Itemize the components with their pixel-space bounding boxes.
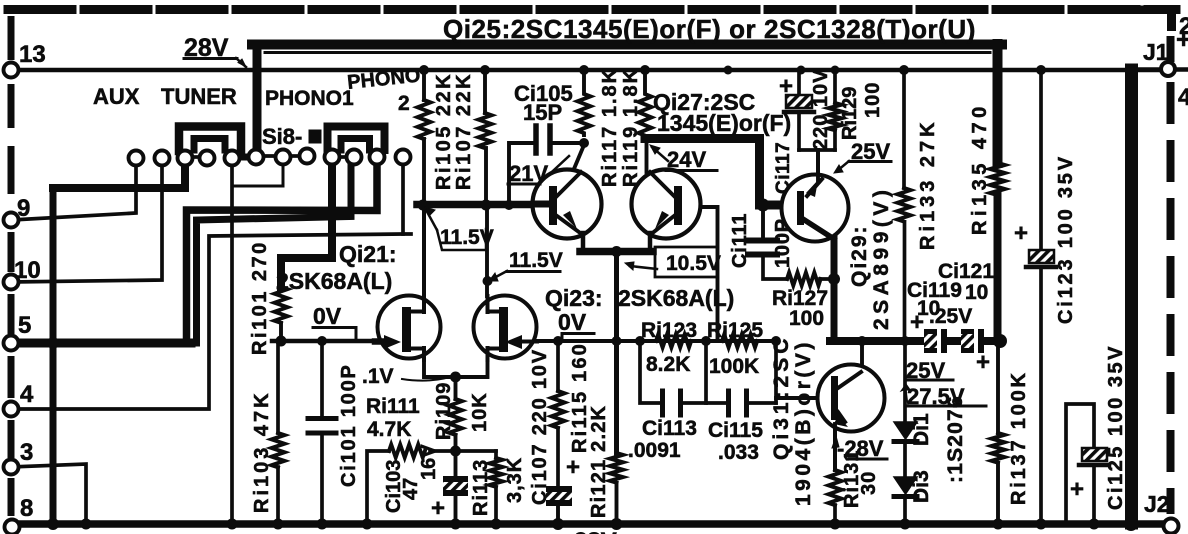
wire source node down to Ri109 — [454, 377, 458, 399]
wire Ri103 to ground — [276, 467, 280, 522]
svg-text:.033: .033 — [718, 441, 759, 464]
wire mid leg — [704, 341, 708, 403]
terminal 9 — [4, 213, 19, 228]
switch bracket PHONO1 outer — [328, 127, 385, 151]
callout 24V arrow — [652, 147, 668, 161]
junction (801,70) — [797, 66, 806, 75]
switch bracket TUNER outer — [179, 127, 241, 152]
junction (728,70) — [724, 66, 733, 75]
wire emitter tail down — [614, 251, 619, 453]
wire thick base node Q25 — [417, 201, 550, 209]
svg-text:Ci101 100P: Ci101 100P — [338, 363, 360, 487]
wire Ri115 column from rail — [556, 341, 560, 391]
border left dashed — [8, 16, 15, 516]
junction (455.5,377) — [450, 372, 461, 383]
contact TUNER-R — [200, 151, 215, 166]
capacitor Ci123 100 35V column — [1039, 70, 1043, 252]
wire Q27 base lead right — [682, 207, 718, 341]
resistor Ri123 8.2K horizontal — [656, 335, 691, 348]
resistor Ri121 2.2K — [610, 453, 623, 483]
svg-text:+: + — [1070, 476, 1084, 503]
wire AUX-L stub down from contact — [11, 165, 136, 220]
junction (53,524) — [47, 518, 59, 530]
wire 0V rail right segment — [537, 339, 776, 343]
wire thick TUNER contact to left bus — [53, 164, 185, 188]
diode Di1 1S2076 — [894, 422, 917, 439]
wire Ci103 to ground — [454, 496, 458, 522]
junction (1000,341) — [993, 334, 1007, 348]
svg-text:Ri109: Ri109 — [433, 382, 455, 440]
svg-text:Ri135 470: Ri135 470 — [969, 102, 991, 235]
capacitor Ci121 10 electrolytic — [961, 329, 974, 353]
switch bracket TUNER inner — [194, 139, 225, 151]
svg-text:Ci123 100 35V: Ci123 100 35V — [1055, 154, 1077, 324]
junction (455.5,524) — [450, 519, 461, 530]
wire Ri137 to ground — [996, 463, 1000, 523]
resistor Ri101 270 — [275, 287, 288, 323]
junction (834,279) — [828, 273, 840, 285]
contact PHONO1-R 28V feed — [249, 150, 264, 165]
callout .1V leader — [402, 377, 450, 381]
svg-text:Ri111: Ri111 — [366, 395, 420, 418]
connector J1 — [1161, 62, 1175, 76]
wire Ri121 to ground — [615, 483, 619, 522]
wire node to Ri111 — [430, 449, 456, 453]
junction (862,341) — [857, 336, 867, 346]
wire Q31 emitter column — [833, 426, 837, 470]
resistor Ri137 100K — [992, 433, 1005, 463]
junction (423,205) — [418, 200, 429, 211]
wire Ci115 leads — [708, 401, 726, 405]
diode Di3 1S2076 — [894, 477, 917, 494]
connector J2 — [1164, 519, 1179, 534]
capacitor Ci105 15P plates — [533, 126, 539, 153]
svg-text:30: 30 — [858, 471, 880, 495]
resistor Ri117 1.8K column — [578, 70, 591, 135]
junction (232,524) — [227, 519, 238, 530]
terminal 13 — [4, 63, 19, 78]
junction (1041,524) — [1036, 519, 1047, 530]
resistor Ri115 160 — [552, 391, 565, 428]
svg-text:Qi25:2SC1345(E)or(F) or 2SC132: Qi25:2SC1345(E)or(F) or 2SC1328(T)or(U) — [443, 14, 976, 44]
junction (278,524) — [273, 519, 284, 530]
junction (616.5,251.5) — [611, 246, 622, 257]
junction (616.5,341) — [612, 336, 622, 346]
resistor Ri129 100 column — [833, 70, 837, 103]
callout -28V underline arrow — [849, 458, 887, 461]
wire Ci105 right lead — [553, 141, 584, 145]
resistor Ri125 100K horizontal — [722, 335, 757, 348]
wire common emitter bus Q25 Q27 — [580, 248, 653, 256]
svg-text:3,3K: 3,3K — [504, 457, 526, 503]
wire link c283-c306 — [289, 154, 300, 158]
callout 25V top underline arrow — [849, 160, 891, 163]
svg-text:2SK68A(L): 2SK68A(L) — [276, 268, 392, 294]
svg-text:11.5V: 11.5V — [509, 249, 563, 272]
border top dashed — [8, 5, 1176, 14]
callout 21V underline leader — [508, 183, 540, 186]
resistor Ri133 27K column — [902, 70, 906, 188]
junction (322,524) — [317, 519, 328, 530]
junction (86,524) — [81, 519, 92, 530]
svg-text:+: + — [566, 454, 580, 481]
contact AUX-L — [129, 151, 144, 166]
wire thick bus left corner down to selector — [253, 44, 262, 155]
svg-text:Qi21:: Qi21: — [339, 241, 397, 267]
capacitor Ci101 100P plates — [308, 416, 336, 421]
transistor Q31 2SC1904 — [818, 365, 885, 471]
wire Ri109 to node — [454, 435, 458, 452]
junction (616.5,524) — [611, 518, 623, 530]
junction (706,341) — [701, 336, 711, 346]
junction (1131,524) — [1124, 517, 1138, 531]
svg-text:+: + — [1014, 220, 1028, 247]
contact c283 — [276, 150, 291, 165]
wire Ci103 column — [454, 451, 458, 477]
junction (905,341) — [900, 336, 910, 346]
transistor Q27 2SC1345 — [632, 141, 701, 252]
svg-text:3: 3 — [20, 439, 33, 466]
terminal 4 — [4, 402, 19, 417]
svg-text:+: + — [779, 73, 793, 100]
resistor Ri113 3.3K — [490, 458, 503, 487]
svg-text:2SK68A(L): 2SK68A(L) — [618, 285, 734, 311]
terminal 8 — [5, 520, 20, 534]
resistor Ri105 22K column — [422, 70, 426, 100]
wire Ci111 bottom lead — [763, 257, 787, 279]
resistor Ri109 10K — [449, 399, 462, 435]
svg-text:100P: 100P — [772, 218, 794, 268]
callout 0V first underline tick — [313, 328, 356, 340]
svg-text:Ri113: Ri113 — [470, 459, 492, 516]
junction (776,341) — [771, 336, 781, 346]
wire contact c403 down — [401, 164, 405, 234]
svg-text:10: 10 — [965, 281, 988, 304]
svg-text:Ci115: Ci115 — [708, 419, 763, 442]
svg-text:16V: 16V — [418, 444, 440, 480]
wire thick bus right corner down — [993, 44, 1003, 163]
wire thick right bus J1 down — [1125, 70, 1138, 523]
svg-text:10K: 10K — [469, 392, 491, 432]
svg-text:J2: J2 — [1144, 491, 1170, 517]
svg-text:.25V: .25V — [929, 305, 972, 328]
svg-text:100: 100 — [862, 82, 884, 118]
wire Q29 emitter thick down — [831, 236, 838, 341]
svg-text:J1: J1 — [1143, 39, 1169, 65]
svg-text:9: 9 — [17, 195, 30, 222]
wire AUX-R stub down to terminal 10 — [11, 165, 162, 282]
svg-text:Ri123: Ri123 — [641, 319, 697, 342]
svg-text:AUX: AUX — [93, 84, 140, 109]
callout 25V output underline — [906, 379, 953, 382]
wire 25V node join — [799, 148, 835, 152]
junction (53,343) — [47, 337, 59, 349]
svg-text:Ci125 100 35V: Ci125 100 35V — [1105, 344, 1127, 510]
capacitor Ci103 47 electrolytic — [443, 476, 468, 482]
wire Ci105 left lead — [509, 143, 533, 205]
svg-text:100: 100 — [789, 307, 824, 330]
border right dashed — [1167, 36, 1175, 514]
svg-text:Ci107 220 10V: Ci107 220 10V — [529, 348, 551, 505]
svg-text:10: 10 — [14, 257, 41, 284]
svg-text:100K: 100K — [709, 355, 759, 378]
svg-text:5: 5 — [18, 312, 31, 339]
junction (645,70) — [640, 65, 650, 75]
junction (1131,70) — [1125, 64, 1137, 76]
wire 25V node to Q29 emitter top — [816, 150, 820, 177]
svg-text:0V: 0V — [558, 309, 587, 335]
border top-right corner down stub — [1118, 6, 1176, 15]
svg-text:13: 13 — [19, 41, 46, 68]
capacitor Ci125 100 35V branch — [1066, 404, 1094, 522]
resistor Ri127 100 horizontal — [787, 273, 821, 286]
ground bus bottom rail — [9, 520, 1168, 528]
resistor Ri131 30 — [829, 470, 842, 505]
svg-text:Ri107 22K: Ri107 22K — [453, 72, 475, 190]
svg-text:Ci111: Ci111 — [729, 213, 751, 268]
callout 11.5V second underline arrow — [507, 270, 560, 273]
transistor Q29 2SA899 PNP — [782, 150, 849, 242]
svg-text:+: + — [976, 349, 990, 376]
svg-text:Qi31:2SC: Qi31:2SC — [770, 335, 793, 460]
wire thick top bus horizontal — [252, 40, 1002, 50]
junction (424,70) — [419, 65, 429, 75]
svg-text:Ri137 100K: Ri137 100K — [1008, 370, 1030, 505]
svg-text:Ri117 1.8K: Ri117 1.8K — [599, 67, 621, 187]
wire Ci113 box left leg — [640, 341, 660, 403]
wire thin line under top bus — [265, 51, 990, 54]
wire Ci101 to ground — [320, 435, 324, 522]
junction (486,205) — [481, 200, 492, 211]
contact TUNER-L — [178, 151, 193, 166]
resistor Ri119 1.8K column — [639, 70, 652, 138]
svg-text:Ri129: Ri129 — [839, 87, 861, 140]
wire Ci113 right to mid leg — [683, 401, 706, 405]
terminal 5 — [4, 336, 19, 351]
wire 0V rail left segment — [272, 339, 380, 344]
wire contact c332 down to Ri101 — [281, 164, 332, 287]
wire Q25 collector diagonal — [571, 145, 584, 176]
junction (367,524) — [362, 519, 373, 530]
svg-text:220 10V: 220 10V — [810, 68, 832, 150]
junction (640,341) — [635, 336, 645, 346]
callout 0V second underline tick — [562, 334, 594, 342]
wire Qi21 source down — [424, 358, 487, 377]
wire Q31 base lead — [776, 396, 831, 400]
svg-text:.0091: .0091 — [628, 439, 681, 462]
junction (558,524) — [552, 518, 564, 530]
junction (1041,70) — [1036, 65, 1046, 75]
svg-text:Di1: Di1 — [910, 413, 933, 446]
wire J1 stub left — [1137, 67, 1161, 72]
FET Qi21 2SK68A — [375, 296, 441, 361]
wire link c185-c207 — [191, 155, 201, 159]
wire +28V top rail — [11, 68, 1162, 73]
wire Ri115 to Ci107 — [556, 428, 560, 486]
junction (584,143) — [579, 138, 589, 148]
svg-text:4: 4 — [20, 381, 34, 408]
svg-text:24V: 24V — [667, 147, 706, 172]
junction (905,524) — [900, 519, 911, 530]
wire thick link c232-c256 28V feed — [232, 154, 258, 161]
wire bus below Ri135 — [994, 195, 1002, 341]
contact c354 — [347, 150, 362, 165]
wire link c256-c283 — [262, 154, 277, 158]
wire J1 stub right edge — [1175, 67, 1188, 72]
wire Ci111 top lead from thick node — [761, 205, 765, 238]
svg-text:+: + — [431, 495, 445, 522]
svg-text:28V: 28V — [574, 528, 617, 534]
junction (485,70) — [480, 65, 490, 75]
svg-text:.1V: .1V — [362, 365, 394, 388]
svg-text:1904(B)or(V): 1904(B)or(V) — [792, 339, 815, 506]
junction (281,341) — [276, 336, 287, 347]
callout 11.5V flag — [425, 208, 437, 230]
wire Qi23 drain up from node — [485, 205, 489, 296]
junction (487.5,281) — [483, 276, 493, 286]
wire Ri111 left to ground — [367, 451, 389, 522]
svg-text:Ri101 270: Ri101 270 — [249, 240, 271, 355]
FET Qi23 2SK68A mirrored — [474, 296, 538, 361]
wire right leg to Q31 base — [774, 341, 778, 403]
svg-text::1S2076: :1S2076 — [944, 395, 967, 483]
wire thick left vertical bus x53 — [50, 188, 57, 523]
svg-text:10.5V: 10.5V — [666, 252, 721, 275]
callout 27.5V underline arrow — [906, 405, 986, 408]
wire contact c283 stub down — [282, 164, 285, 186]
svg-text:Ri103 47K: Ri103 47K — [251, 390, 273, 513]
capacitor Ci111 100P plates — [748, 238, 777, 244]
wire terminal5 thick horizontal — [11, 339, 191, 348]
callout 28V underline and arrow — [184, 57, 237, 60]
resistor Ri107 22K column — [483, 70, 487, 113]
wire Ci101 column top — [320, 341, 324, 416]
svg-text:Ri105 22K: Ri105 22K — [433, 72, 455, 190]
svg-text:+: + — [910, 309, 924, 336]
Si8-a square — [310, 131, 321, 143]
junction (763,205) — [757, 199, 770, 212]
svg-text:8: 8 — [20, 495, 33, 522]
wire Ri131 to ground — [833, 505, 837, 522]
svg-text:Si8-: Si8- — [262, 124, 302, 149]
svg-text:4.7K: 4.7K — [367, 418, 411, 441]
svg-text:PHONO1: PHONO1 — [265, 87, 354, 110]
resistor Ri135 470 in bus — [991, 163, 1005, 195]
capacitor Ci117 220 10V electrolytic column — [797, 70, 801, 96]
wire contact c232 down to ground — [230, 165, 234, 522]
terminal 3 — [4, 460, 19, 475]
wire Ri113 to ground — [494, 487, 498, 522]
wire Q31 collector stub — [860, 341, 864, 371]
wire thick outer path terminal5 to contact PHONO2-R — [187, 164, 378, 343]
wire terminal3 to ground — [11, 464, 86, 523]
svg-text:8.2K: 8.2K — [646, 353, 690, 376]
svg-text:Ri133 27K: Ri133 27K — [917, 118, 939, 250]
wire Ri101 to 0V rail — [279, 323, 283, 341]
junction (904,70) — [899, 65, 909, 75]
svg-text:+: + — [1176, 24, 1188, 54]
wire Ri113 column — [494, 451, 498, 458]
wire diode column — [903, 341, 907, 422]
svg-text:0V: 0V — [313, 303, 342, 329]
wire Ri137 column — [996, 341, 1000, 433]
svg-text:Ci113: Ci113 — [642, 417, 697, 440]
junction (322,341) — [317, 336, 327, 346]
contact AUX-R — [155, 151, 170, 166]
callout 10.5V box leader — [655, 247, 718, 277]
svg-text:Qi29:: Qi29: — [848, 224, 871, 287]
junction (509,205) — [504, 200, 514, 210]
svg-text:Ri121 2.2K: Ri121 2.2K — [588, 405, 610, 518]
svg-text:TUNER: TUNER — [161, 84, 237, 109]
svg-text:4: 4 — [1178, 84, 1188, 111]
svg-text:2SA899(V): 2SA899(V) — [870, 186, 893, 330]
resistor Ri111 4.7K horizontal — [389, 445, 425, 458]
wire Qi23 source down — [486, 358, 490, 377]
junction (835,70) — [831, 66, 840, 75]
capacitor Ci119 10 electrolytic — [924, 329, 937, 353]
terminal 10 — [4, 275, 19, 290]
contact c403 PHONO2 — [396, 150, 411, 165]
svg-text:2: 2 — [398, 92, 410, 115]
wire Ri103 column — [276, 341, 280, 433]
junction (584,70) — [579, 65, 589, 75]
contact c377 — [370, 150, 385, 165]
junction (835,524) — [830, 519, 841, 530]
wire Ri127 to emitter line — [820, 277, 834, 281]
contact PHONO1-L — [225, 151, 240, 166]
wire Qi21 drain column — [422, 205, 426, 296]
junction (1094,524) — [1089, 519, 1100, 530]
svg-text:Ri125: Ri125 — [707, 319, 763, 342]
wire node to Ri113 — [456, 449, 497, 453]
svg-text:15P: 15P — [523, 100, 562, 125]
junction (558,341) — [553, 336, 563, 346]
wire Ci107 to ground — [556, 505, 560, 522]
capacitor Ci115 .033 plates — [726, 391, 731, 415]
wire link c332-c354 — [338, 155, 346, 159]
svg-text:Ri119 1.8K: Ri119 1.8K — [620, 67, 642, 187]
svg-text:Di3: Di3 — [910, 470, 933, 503]
svg-text:1345(E)or(F): 1345(E)or(F) — [657, 110, 791, 136]
junction (455.5,451) — [450, 446, 461, 457]
capacitor Ci113 .0091 plates — [660, 391, 665, 415]
wire terminal4 line across — [11, 234, 411, 409]
switch bracket PHONO1 inner — [341, 139, 370, 151]
svg-text:Ci117: Ci117 — [773, 142, 794, 194]
transistor Q25 2SC1345 — [533, 170, 602, 253]
wire c232 to c283 link at y186 — [232, 185, 283, 188]
contact c332 — [325, 150, 340, 165]
resistor Ri103 47K — [272, 433, 285, 467]
wire thick 24V line Q27 collector to Ci117 node — [645, 139, 797, 206]
svg-text:47: 47 — [400, 478, 422, 500]
capacitor Ci107 220 10V electrolytic — [546, 486, 572, 492]
contact c306 Si8-a — [300, 149, 315, 164]
junction (998,524) — [993, 519, 1004, 530]
svg-text:Qi23:: Qi23: — [545, 285, 603, 311]
wire thick output line with caps — [830, 337, 927, 345]
junction (496,524) — [491, 519, 502, 530]
wire thick inner path to contact PHONO2-L — [197, 164, 352, 343]
